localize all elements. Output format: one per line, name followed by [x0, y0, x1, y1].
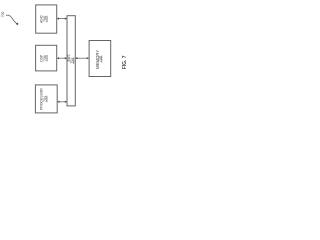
underline for 710: [101, 56, 103, 63]
svg-text:702: 702: [70, 58, 74, 64]
bus bar: [67, 16, 75, 106]
arrowhead at bus (DSP wire): [65, 57, 67, 59]
arrowhead at MEMORY: [87, 57, 89, 59]
block ASIC box: [36, 5, 57, 33]
svg-text:FIG. 7: FIG. 7: [122, 55, 128, 69]
underline for 708: [46, 16, 48, 22]
underline for 702: [73, 57, 75, 63]
arrowhead at bus (MEMORY wire): [75, 57, 77, 59]
svg-text:708: 708: [43, 16, 47, 22]
arrowhead at DSP: [57, 57, 59, 59]
svg-text:700: 700: [1, 12, 5, 18]
wire bus to MEMORY: [76, 57, 88, 59]
block MEMORY box: [89, 41, 111, 77]
svg-text:706: 706: [43, 55, 47, 61]
arrowhead at bus (PROCESSOR wire): [65, 101, 67, 103]
svg-text:704: 704: [43, 96, 47, 102]
underline for 706: [46, 55, 48, 61]
wire ASIC to bus: [58, 18, 67, 20]
background: [0, 0, 131, 120]
wire PROCESSOR to bus: [58, 101, 66, 103]
block DSP box: [36, 45, 57, 71]
arrowhead at PROCESSOR: [57, 101, 59, 103]
lead line squiggle for 700: [6, 15, 17, 23]
underline for 704: [46, 96, 48, 102]
wire DSP to bus: [58, 57, 67, 59]
arrowhead at ASIC: [57, 18, 59, 20]
arrowhead at bus (ASIC wire): [65, 18, 67, 20]
block PROCESSOR box: [35, 85, 57, 113]
